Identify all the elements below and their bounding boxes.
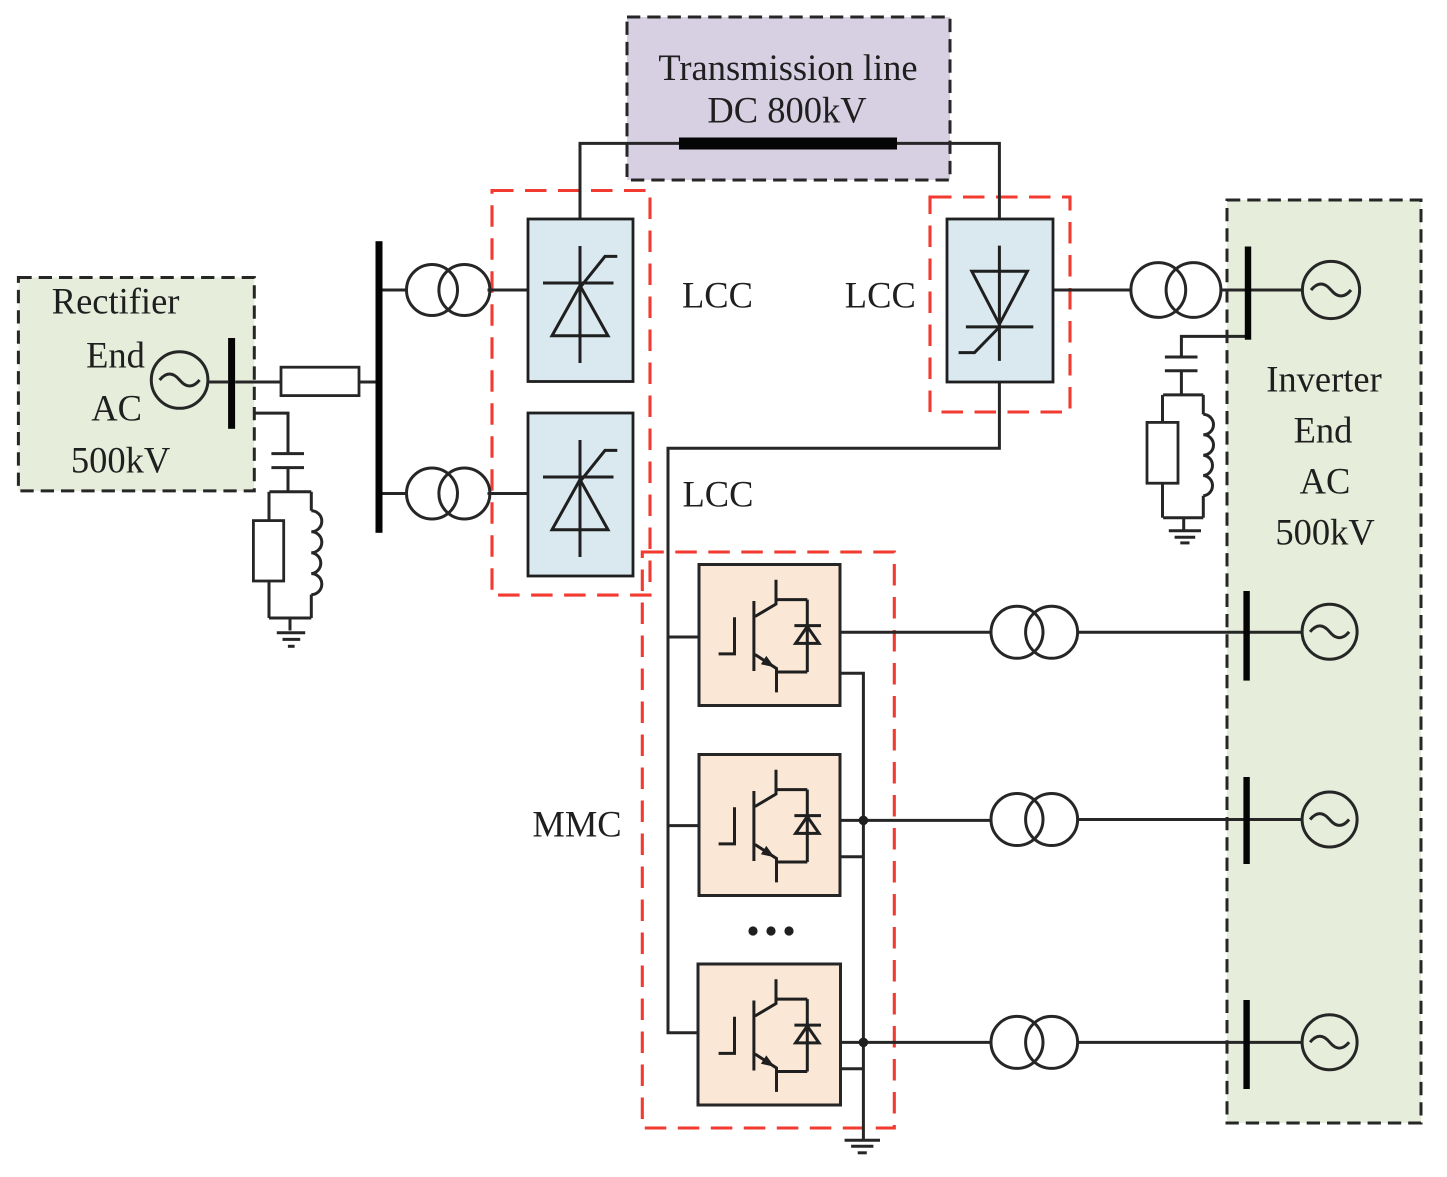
svg-text:End: End [86, 335, 145, 376]
svg-text:Transmission line: Transmission line [658, 47, 917, 88]
svg-text:DC 800kV: DC 800kV [707, 90, 866, 131]
svg-text:LCC: LCC [682, 275, 753, 316]
svg-text:End: End [1294, 410, 1353, 451]
svg-text:500kV: 500kV [1275, 512, 1374, 553]
svg-text:Inverter: Inverter [1266, 359, 1382, 400]
svg-text:LCC: LCC [845, 275, 916, 316]
svg-text:LCC: LCC [683, 474, 754, 515]
svg-text:Rectifier: Rectifier [52, 281, 180, 322]
svg-text:AC: AC [91, 388, 142, 429]
svg-text:500kV: 500kV [71, 440, 170, 481]
svg-text:AC: AC [1300, 461, 1351, 502]
svg-text:MMC: MMC [532, 804, 621, 845]
